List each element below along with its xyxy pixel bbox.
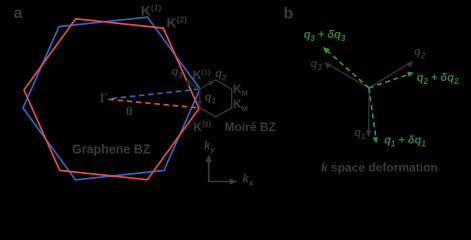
hexagon red Graphene BZ layer 2	[24, 19, 199, 180]
dashed line Gamma to K(1) blue	[112, 89, 199, 98]
svg-text:k space deformation: k space deformation	[321, 161, 438, 175]
arrow q1 in moire BZ	[197, 90, 203, 107]
svg-text:Moiré BZ: Moiré BZ	[225, 120, 276, 134]
dashed line Gamma to K(2) red	[109, 99, 199, 108]
arrow q1 solid	[366, 88, 372, 137]
axis kx arrow	[209, 178, 238, 184]
axis ky arrow	[206, 154, 212, 181]
hexagon blue Graphene BZ layer 1	[23, 17, 200, 180]
arrow q3 in moire BZ	[185, 80, 200, 89]
arrow q2 in moire BZ	[200, 80, 215, 89]
svg-text:θ: θ	[126, 104, 133, 119]
arrow q3 solid	[324, 62, 369, 88]
arrow q2 solid	[369, 61, 414, 88]
arrow q3+dq3 green dashed	[323, 47, 369, 88]
svg-text:Graphene BZ: Graphene BZ	[72, 142, 151, 156]
svg-text:Γ: Γ	[100, 91, 108, 105]
svg-text:b: b	[284, 5, 294, 22]
arrow q1+dq1 green dashed	[369, 88, 378, 143]
hexagon moire BZ	[200, 80, 232, 117]
svg-text:a: a	[14, 5, 23, 22]
arrow q2+dq2 green dashed	[369, 72, 414, 88]
